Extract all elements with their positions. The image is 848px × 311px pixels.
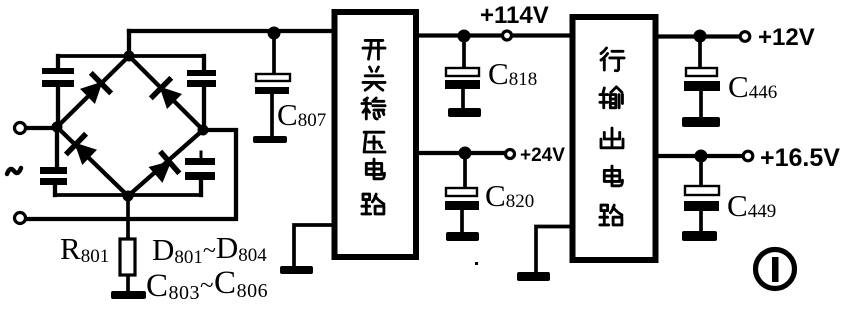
svg-text:C449: C449 [727, 188, 776, 223]
svg-text:+12V: +12V [758, 24, 815, 51]
svg-text:+16.5V: +16.5V [760, 144, 840, 172]
svg-text:C803~C806: C803~C806 [146, 265, 268, 304]
svg-text:R801: R801 [60, 231, 109, 267]
svg-text:+24V: +24V [520, 145, 565, 166]
svg-text:D801~D804: D801~D804 [152, 230, 267, 268]
svg-text:C820: C820 [485, 178, 534, 213]
svg-text:C807: C807 [277, 97, 326, 132]
svg-text:C818: C818 [488, 56, 537, 91]
svg-text:C446: C446 [728, 69, 777, 104]
svg-text:+114V: +114V [480, 2, 549, 29]
